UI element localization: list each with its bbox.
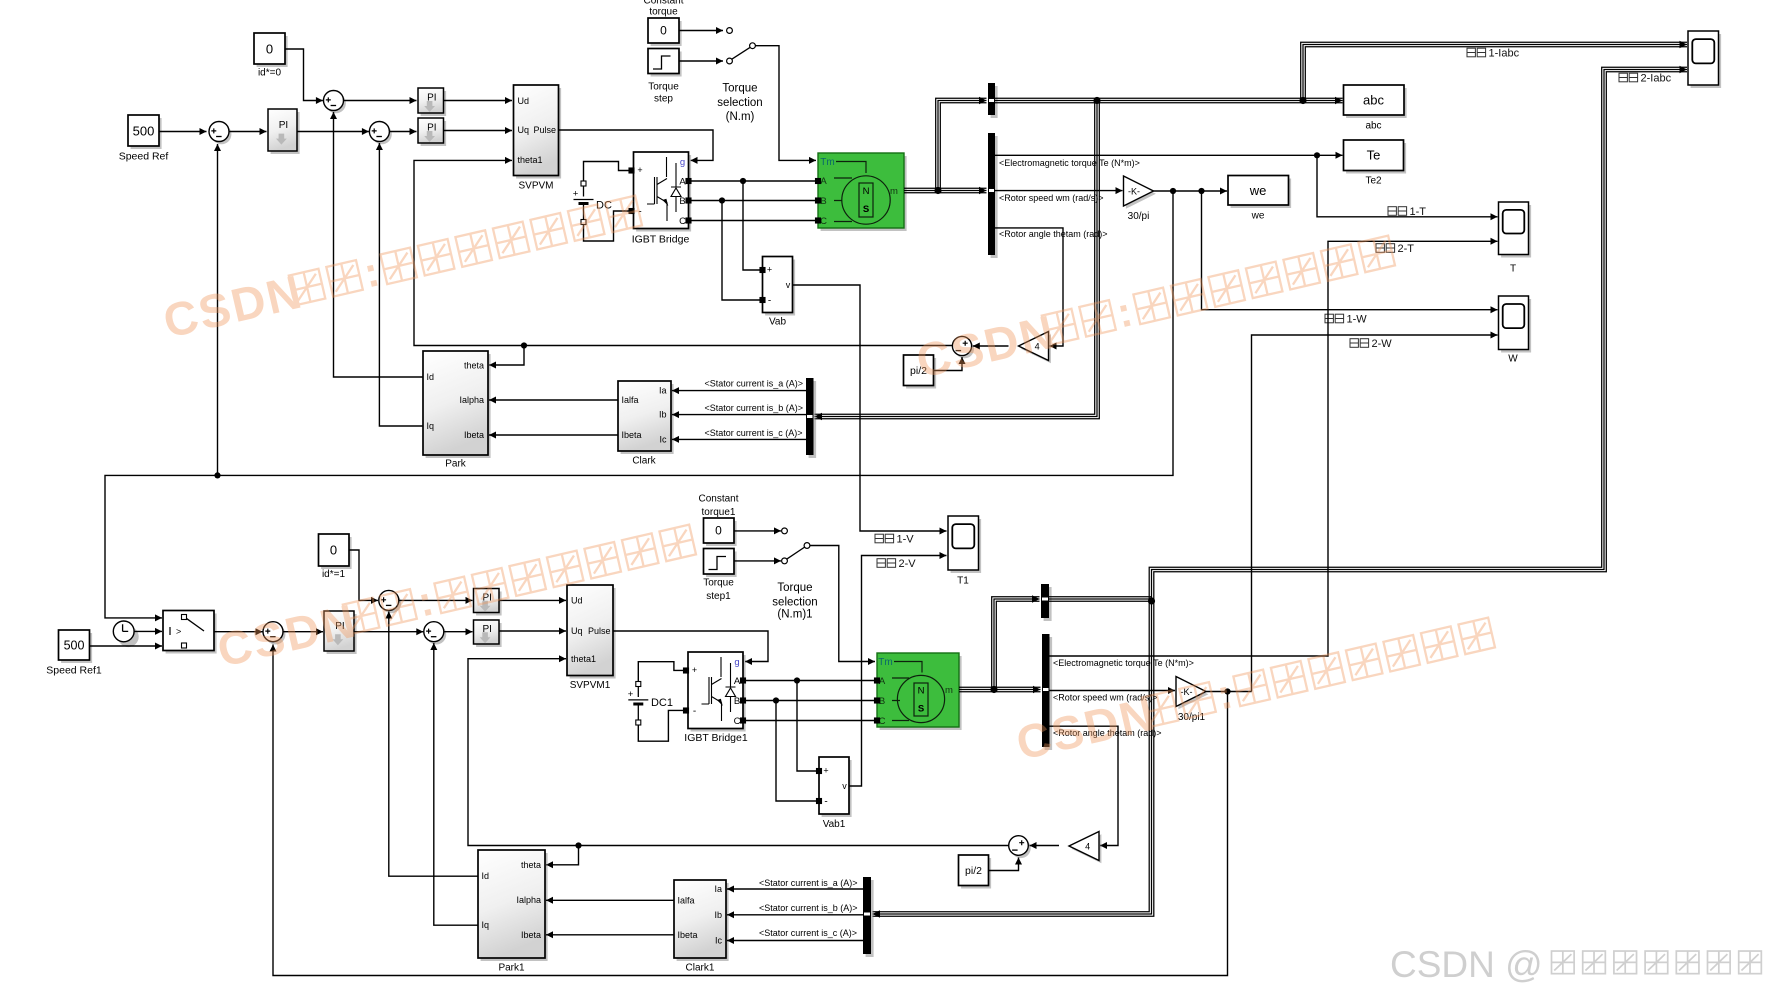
wire id*=1 to sum S5 [349, 550, 378, 600]
bus junction down to stator selector [815, 101, 1100, 419]
wire Torque step1 to switch1 [734, 560, 781, 562]
wire stator current a to Clark Ia [672, 390, 806, 392]
wire Vab v to scope T1 (motor1-V) [793, 285, 947, 531]
svg-text:torque1: torque1 [702, 507, 736, 518]
wire PI speed to sum S3 [297, 131, 369, 133]
subsystem SVPVM1 [570, 588, 616, 679]
svg-text:4: 4 [1085, 841, 1090, 851]
watermark gray CSDN bottom right [1390, 944, 1761, 985]
svg-text:Ibeta: Ibeta [521, 930, 541, 940]
svg-text:B: B [734, 696, 740, 707]
svg-text:<Electromagnetic torque Te (N*: <Electromagnetic torque Te (N*m)> [999, 158, 1140, 168]
scope W [1501, 299, 1531, 353]
svg-text:Vab: Vab [769, 317, 786, 328]
wire gain4 to angle sum [973, 345, 1009, 347]
PMSM machine block 2 [880, 656, 962, 730]
switch block speed source [166, 614, 217, 654]
wire switch to motor Tm [755, 46, 816, 161]
wire IGBT1 C to motor2 C [746, 720, 875, 722]
constant pi/2 motor1 [906, 358, 936, 389]
svg-text:Ibeta: Ibeta [464, 430, 484, 440]
wire IGBT1 A to motor2 A [746, 680, 875, 682]
PMSM machine block 1 [821, 156, 907, 231]
wire DC- to IGBT- [584, 211, 632, 241]
signal label motor2-W [1350, 339, 1369, 348]
constant block Speed Ref1 value 500 [61, 633, 92, 663]
subsystem IGBT Bridge1 [691, 655, 746, 732]
bus mux2 to corner junction [1049, 596, 1152, 598]
wire Park Id feedback to S2 [334, 112, 424, 377]
svg-text:abc: abc [1363, 93, 1384, 108]
step block Torque step1 [706, 552, 737, 578]
svg-text:we: we [1251, 211, 1265, 222]
bus bar1 to junction and abc [995, 97, 1343, 99]
svg-text:2-W: 2-W [1372, 338, 1393, 350]
wire S4 to PI speed motor2 [283, 631, 323, 633]
svg-text:-: - [824, 797, 827, 808]
wire stator current c to Clark Ic [672, 438, 806, 440]
svg-text:+: + [692, 665, 697, 675]
sum junction S1 speed error [211, 124, 231, 144]
gain 4 motor2 [1071, 834, 1101, 863]
svg-text:-: - [768, 296, 771, 307]
svg-text:m: m [890, 186, 898, 197]
svg-text:C: C [734, 716, 741, 727]
wire IGBT B to motor B [691, 200, 816, 202]
wire switch1 to motor2 Tm [810, 546, 875, 662]
wire S2 to PI d [344, 100, 417, 102]
svg-text:pi/2: pi/2 [965, 865, 982, 877]
mux bar1 motor1 [991, 86, 998, 118]
svg-text:Uq: Uq [571, 626, 583, 636]
svg-text:Te: Te [1367, 148, 1381, 163]
wire gain to we block [1154, 190, 1228, 192]
svg-text:Ic: Ic [715, 936, 723, 946]
svg-text:W: W [1508, 354, 1518, 365]
bus motor1 to bus selector bar2 [938, 187, 987, 189]
DC voltage source 1 [628, 687, 648, 720]
svg-text:SVPVM1: SVPVM1 [570, 680, 611, 691]
svg-text:C: C [679, 216, 686, 227]
wire IGBT A to motor A [691, 180, 816, 182]
wire PI d to SVPVM1 Ud [499, 599, 566, 601]
wire theta2 branch to Park1 [546, 846, 579, 865]
sum junction S2 d-current error [326, 93, 346, 113]
switch lever and criteria [186, 618, 204, 631]
svg-text:2-Iabc: 2-Iabc [1641, 72, 1672, 84]
svg-text:<Electromagnetic torque Te (N*: <Electromagnetic torque Te (N*m)> [1053, 658, 1194, 668]
svg-text:N: N [918, 685, 925, 696]
wire 500 to sum S1 [159, 131, 207, 133]
svg-text:Park1: Park1 [498, 963, 525, 974]
wire clock to switch [134, 630, 162, 632]
svg-text:Iq: Iq [482, 920, 490, 930]
svg-text:<Rotor angle thetam (rad)>: <Rotor angle thetam (rad)> [999, 229, 1108, 239]
wire DC1- to IGBT1- [638, 710, 685, 741]
wire pi/2 to angle sum motor2 [989, 858, 1019, 871]
wire DC+ to IGBT+ [584, 162, 632, 182]
wire S6 to PI q motor2 [444, 631, 473, 633]
bus motor2 to bus selector bar2b [994, 686, 1041, 688]
svg-text:CSDN @: CSDN @ [1390, 944, 1543, 985]
svg-text:selection: selection [717, 97, 762, 109]
svg-text:+: + [637, 165, 642, 175]
wire Clark1 Ibeta to Park1 Ibeta [546, 934, 674, 936]
wire Clark1 Ialfa to Park1 Ialpha [546, 899, 674, 901]
wire Vab1 v to scope T1 (motor2-V) [849, 556, 947, 787]
wire phase A2 to Vab1+ [797, 681, 817, 772]
svg-text:Tm: Tm [878, 657, 892, 668]
svg-text:Ud: Ud [518, 96, 530, 106]
wire id*=0 to sum S2 [285, 49, 323, 101]
svg-text:1-V: 1-V [897, 533, 915, 545]
wire pi/2 to angle sum [934, 357, 963, 371]
svg-text:step1: step1 [706, 591, 731, 602]
sum junction angle motor1 [955, 339, 974, 358]
svg-text:<Stator current is_b (A)>: <Stator current is_b (A)> [705, 403, 804, 413]
svg-text:+: + [573, 188, 579, 199]
step icon [653, 56, 671, 69]
sum junction S3 q-current error [372, 124, 392, 144]
svg-text:Torque: Torque [703, 578, 734, 589]
svg-text:IGBT Bridge1: IGBT Bridge1 [684, 732, 748, 744]
svg-text:Pulse: Pulse [588, 626, 611, 636]
svg-text:theta1: theta1 [571, 654, 596, 664]
svg-text:Ia: Ia [659, 386, 667, 396]
svg-text:Ib: Ib [659, 410, 667, 420]
svg-text:abc: abc [1365, 121, 1381, 132]
subsystem Park [426, 354, 491, 458]
PI d-axis controller motor2 [476, 592, 502, 616]
constant block Speed Ref value 500 [131, 118, 162, 149]
sum junction angle motor2 [1011, 839, 1031, 859]
svg-text:-K-: -K- [1128, 186, 1140, 196]
svg-text:2-V: 2-V [899, 558, 917, 570]
sum junction S5 d-current error motor2 [381, 593, 401, 613]
wire gain4 to angle sum motor2 [1030, 845, 1060, 847]
svg-text:Constant: Constant [698, 494, 738, 505]
svg-text:Clark1: Clark1 [686, 963, 715, 974]
svg-text:C: C [820, 216, 827, 227]
svg-text:Ud: Ud [571, 596, 583, 606]
sum junction S6 q-current error motor2 [426, 625, 446, 645]
svg-text:Pulse: Pulse [533, 125, 556, 135]
svg-text:Ialfa: Ialfa [678, 895, 695, 905]
wire rotor speed to gain 30/pi [995, 190, 1123, 192]
wire PI to sum S6 [354, 631, 423, 633]
step1 icon [709, 557, 727, 570]
wire speed feedback motor2 long [273, 645, 1228, 976]
bus motor1 m output [904, 187, 938, 189]
wire Clark Ibeta to Park Ibeta [489, 434, 618, 436]
goto block we [1231, 179, 1292, 209]
bus junction down to stator selector motor2 [873, 601, 1154, 916]
svg-text:T1: T1 [957, 576, 969, 587]
svg-text:S: S [863, 204, 869, 215]
wire Te tap to scope T (motor1-T) [1317, 155, 1498, 217]
svg-text:selection: selection [772, 597, 817, 609]
svg-text:we: we [1249, 183, 1267, 198]
wire speed feedback motor1 long [105, 191, 1173, 618]
svg-text:Tm: Tm [820, 157, 834, 168]
signal label motor1-Iabc [1467, 48, 1486, 57]
svg-text:v: v [842, 781, 847, 791]
svg-text:1-Iabc: 1-Iabc [1489, 47, 1520, 59]
svg-text:S: S [918, 703, 924, 714]
bus selector stator currents motor2 [866, 880, 874, 957]
svg-text:Ibeta: Ibeta [678, 930, 698, 940]
svg-text:Ib: Ib [714, 910, 722, 920]
svg-text:500: 500 [133, 124, 155, 139]
svg-text:<Stator current is_c (A)>: <Stator current is_c (A)> [705, 428, 803, 438]
bus junction up right to scope (motor2-Iabc) [1149, 67, 1687, 601]
PI speed controller [271, 112, 300, 154]
wire speed tap to scope W (motor1-W) [1202, 191, 1498, 310]
wire phase B to Vab- [722, 201, 760, 301]
wire SVPVM1 Pulse to IGBT1 g [613, 631, 768, 662]
svg-text:theta: theta [464, 361, 484, 371]
wire IGBT C to motor C [691, 220, 816, 222]
svg-text:30/pi: 30/pi [1128, 211, 1150, 222]
wire S5 to PI d motor2 [399, 599, 473, 601]
wire Clark Ialfa to Park Ialpha [489, 399, 618, 401]
svg-text:IGBT Bridge: IGBT Bridge [632, 234, 690, 246]
mux bar motor2 [1044, 587, 1052, 621]
svg-text:0: 0 [266, 42, 273, 57]
svg-text:Ibeta: Ibeta [622, 430, 642, 440]
svg-text:Id: Id [482, 871, 490, 881]
constant block id*=1 [321, 537, 352, 569]
constant block Constant torque1 value 0 [706, 521, 737, 546]
voltage measurement Vab1 [822, 760, 852, 817]
wire Constant torque to switch [679, 30, 723, 32]
watermark orange 3 [212, 516, 699, 677]
bus selector bar2 motor1 [991, 136, 998, 258]
svg-text:B: B [820, 196, 826, 207]
svg-text:+: + [628, 689, 634, 700]
wire stator current a2 to Clark1 Ia [727, 888, 863, 890]
subsystem Park1 [481, 853, 548, 961]
IGBT icon [647, 157, 681, 221]
wire phase B2 to Vab1- [776, 701, 817, 802]
bus motor2 m output [959, 686, 994, 688]
svg-text:Ialpha: Ialpha [459, 395, 484, 405]
svg-text:Speed Ref1: Speed Ref1 [46, 665, 102, 677]
wire Speed Ref1 to switch [90, 645, 163, 647]
svg-text:DC1: DC1 [651, 697, 673, 709]
svg-text:Torque: Torque [722, 83, 757, 95]
svg-text:Clark: Clark [632, 456, 656, 467]
bus motor1 to mux bar1 [936, 98, 987, 190]
voltage measurement Vab [765, 260, 795, 316]
svg-text:Uq: Uq [518, 125, 530, 135]
svg-text:>: > [176, 627, 181, 637]
wire PI q to SVPVM1 Uq [499, 630, 566, 632]
svg-text:Speed Ref: Speed Ref [119, 151, 169, 163]
svg-text:<Stator current is_c (A)>: <Stator current is_c (A)> [759, 928, 857, 938]
wire speed feedback up to S1 [217, 144, 219, 475]
svg-text:<Stator current is_b (A)>: <Stator current is_b (A)> [759, 903, 858, 913]
svg-text:theta1: theta1 [518, 155, 543, 165]
scope T [1501, 205, 1531, 258]
svg-text:A: A [679, 176, 686, 187]
svg-text:m: m [945, 685, 953, 696]
constant block id*=0 [257, 36, 288, 67]
svg-text:0: 0 [715, 524, 722, 538]
wire rotor angle to gain 4 [995, 228, 1063, 346]
gain 30/pi motor1 [1126, 179, 1156, 209]
svg-text:B: B [679, 196, 685, 207]
step block Torque step [651, 52, 682, 77]
constant pi/2 motor2 [961, 858, 991, 889]
subsystem SVPVM [516, 88, 561, 179]
subsystem Clark [621, 384, 674, 454]
manual switch Torque selection 1 [782, 528, 788, 534]
svg-text:id*=0: id*=0 [258, 68, 282, 79]
wire PI d to SVPVM Ud [444, 100, 513, 102]
svg-text:(N.m): (N.m) [726, 111, 755, 123]
svg-text:Id: Id [427, 372, 435, 382]
goto block abc [1346, 88, 1407, 118]
PI d-axis current controller [421, 91, 447, 116]
wire theta branch to Park [489, 346, 524, 366]
wire gain2 output junction [1206, 691, 1252, 693]
svg-text:Ialpha: Ialpha [516, 895, 541, 905]
svg-text:v: v [786, 280, 791, 290]
svg-text:g: g [734, 657, 739, 668]
wire Torque step to switch [679, 60, 723, 62]
svg-text:torque: torque [649, 7, 678, 18]
wire S1 to PI speed [229, 131, 267, 133]
svg-text:+: + [823, 766, 828, 776]
wire PI q to SVPVM Uq [444, 130, 513, 132]
svg-text:theta: theta [521, 860, 541, 870]
wire stator current b2 to Clark1 Ib [727, 914, 863, 916]
signal label motor2-Iabc [1619, 73, 1638, 82]
svg-text:A: A [734, 676, 741, 687]
svg-text:Torque: Torque [777, 582, 812, 594]
wire speed2 to scope W (motor2-W) [1252, 335, 1498, 692]
svg-text:0: 0 [660, 24, 667, 38]
wire stator current b to Clark Ib [672, 414, 806, 416]
bus motor2 to mux bar1b [992, 597, 1040, 690]
svg-text:Te2: Te2 [1365, 176, 1382, 187]
wire Constant torque1 to switch1 [734, 530, 781, 532]
svg-text:id*=1: id*=1 [322, 569, 346, 580]
wire Te2 wire to scope T (motor2-T) [1049, 241, 1498, 656]
svg-text:N: N [863, 186, 870, 197]
wire theta2 to Park1/SVPVM1 [468, 659, 1009, 846]
wire SVPVM Pulse to IGBT g [559, 130, 714, 160]
bus selector stator currents motor1 [809, 381, 817, 458]
subsystem Clark1 [677, 883, 729, 961]
wire DC1+ to IGBT1+ [638, 662, 685, 682]
svg-text:+: + [767, 265, 772, 275]
svg-text:-: - [693, 706, 696, 717]
wire Park Iq feedback to S3 [379, 143, 423, 426]
svg-text:Iq: Iq [427, 421, 435, 431]
svg-text:A: A [820, 176, 827, 187]
wire stator current c2 to Clark1 Ic [727, 940, 863, 942]
svg-text:500: 500 [64, 638, 85, 652]
wire phase A to Vab+ [743, 181, 760, 270]
wire S3 to PI q [389, 131, 416, 133]
wire Park1 Id feedback to S5 [389, 612, 478, 877]
svg-text:<Rotor speed wm (rad/s)>: <Rotor speed wm (rad/s)> [999, 193, 1104, 203]
svg-text:g: g [680, 157, 685, 168]
wire theta to Park/SVPVM [414, 160, 952, 345]
PI q-axis current controller [421, 121, 447, 146]
svg-text:1-T: 1-T [1410, 206, 1427, 218]
svg-text:Ialfa: Ialfa [622, 395, 639, 405]
bus selector bar motor2 [1045, 637, 1053, 750]
watermark orange 2 [911, 227, 1398, 388]
signal label motor1-W [1325, 314, 1344, 323]
svg-text:<Stator current is_a (A)>: <Stator current is_a (A)> [705, 379, 804, 389]
svg-text:Vab1: Vab1 [823, 819, 846, 830]
svg-text:Park: Park [445, 459, 467, 470]
svg-text:(N.m)1: (N.m)1 [777, 609, 812, 621]
signal label motor2-T [1376, 244, 1395, 253]
scope T1 [951, 519, 982, 573]
goto block Te [1346, 143, 1406, 174]
PI q-axis controller motor2 [476, 623, 502, 647]
wire IGBT1 B to motor2 B [746, 700, 875, 702]
svg-text:2-T: 2-T [1398, 243, 1415, 255]
signal label motor2-V [877, 559, 896, 568]
svg-text:Torque: Torque [648, 82, 679, 93]
svg-text:1-W: 1-W [1347, 313, 1368, 325]
wire switch to sum S4 [214, 631, 263, 633]
svg-text:step: step [654, 94, 673, 105]
manual switch Torque selection [727, 28, 733, 34]
svg-text:Ia: Ia [714, 884, 722, 894]
gain 4 motor1 [1021, 334, 1051, 363]
constant block Constant torque value 0 [651, 21, 682, 46]
gain 30/pi1 motor2 [1178, 679, 1208, 709]
IGBT1 icon [702, 657, 736, 721]
wire Te to Te block [995, 154, 1343, 156]
wire rotor angle2 to gain 4 [1049, 726, 1118, 845]
scope Iabc top right [1691, 34, 1722, 88]
clock block [118, 626, 139, 647]
svg-text:T: T [1510, 264, 1516, 275]
wire Park1 Iq feedback to S6 [434, 643, 478, 925]
signal label motor1-T [1388, 207, 1407, 216]
subsystem IGBT Bridge [636, 155, 691, 232]
signal label motor1-V [875, 534, 894, 543]
bus junction up to scope (motor1-Iabc) [1301, 42, 1687, 100]
wire rotor speed2 to gain 30/pi1 [1049, 690, 1175, 692]
watermark orange 4 [1011, 609, 1498, 770]
svg-text:SVPVM: SVPVM [518, 181, 553, 192]
DC voltage source [574, 186, 594, 219]
svg-text:PI: PI [279, 120, 288, 131]
sum junction S4 speed error motor2 [265, 625, 285, 645]
watermark orange 1 [158, 187, 645, 348]
svg-text:0: 0 [330, 543, 337, 558]
svg-text:<Stator current is_a (A)>: <Stator current is_a (A)> [759, 878, 858, 888]
svg-text:Ic: Ic [659, 435, 667, 445]
PI speed controller motor2 [327, 614, 357, 654]
